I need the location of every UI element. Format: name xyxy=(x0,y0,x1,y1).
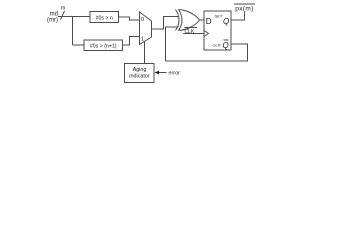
wire Q output up to alarm label xyxy=(231,12,245,21)
svg-text:#0s > (n+1): #0s > (n+1) xyxy=(90,44,117,50)
XOR gate G1 extra input arc xyxy=(176,10,180,31)
wire to comparator 2 xyxy=(73,44,85,46)
wire CLK to flip-flop clock xyxy=(183,33,204,35)
wire feedback up to XOR bottom input xyxy=(166,27,179,61)
wire junction vertical to lower comparator xyxy=(72,17,74,46)
svg-text:#0s > n: #0s > n xyxy=(96,16,113,22)
svg-text:SET: SET xyxy=(215,14,223,19)
svg-text:Q: Q xyxy=(223,17,229,26)
wire Qbar feedback down and left xyxy=(166,44,248,61)
svg-text:(mr): (mr) xyxy=(47,18,58,24)
comparator C2 box xyxy=(84,40,123,51)
svg-text:px(m): px(m) xyxy=(235,6,254,13)
wire XOR output to D input xyxy=(200,19,205,21)
flip-flop clock wedge xyxy=(204,31,209,37)
svg-text:CLR: CLR xyxy=(213,43,221,48)
wire comparator1 output xyxy=(119,17,140,20)
CLK overline bar xyxy=(185,27,198,29)
svg-text:indicator: indicator xyxy=(129,74,150,80)
wire mux select from aging indicator xyxy=(144,42,146,64)
svg-text:Aging: Aging xyxy=(133,67,147,73)
wire mux output to XOR top input xyxy=(152,17,179,30)
error arrowhead into aging indicator xyxy=(155,71,160,75)
svg-text:1: 1 xyxy=(141,37,144,43)
alarm output label overline bar xyxy=(234,3,255,5)
wire input main horizontal xyxy=(58,16,90,18)
wire comparator2 output xyxy=(123,37,140,46)
XOR gate G1 body xyxy=(179,10,200,31)
svg-text:m: m xyxy=(61,6,66,12)
aging indicator block box xyxy=(125,64,155,83)
multiplexer MUX trapezoid xyxy=(140,12,152,45)
wire error stub into aging indicator xyxy=(158,72,167,74)
bus-width slash on input wire xyxy=(61,11,65,20)
svg-text:Q: Q xyxy=(223,41,229,50)
D flip-flop U1 box xyxy=(204,11,231,50)
svg-text:CLK: CLK xyxy=(185,29,195,35)
svg-text:error: error xyxy=(169,71,181,77)
Qbar overline bar xyxy=(224,39,229,41)
svg-text:D: D xyxy=(206,17,212,26)
svg-text:0: 0 xyxy=(141,17,144,23)
comparator C1 box xyxy=(90,12,119,23)
